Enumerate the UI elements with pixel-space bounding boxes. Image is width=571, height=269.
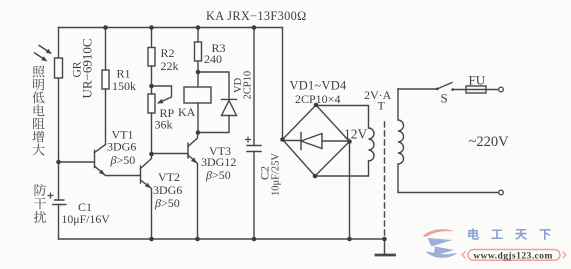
transformer core dashed line — [384, 122, 386, 238]
VT3 emitter arrow — [191, 157, 197, 163]
svg-text:2CP10×4: 2CP10×4 — [295, 92, 340, 106]
wire R2 to RP — [151, 66, 153, 94]
wire VD branch bottom — [198, 116, 229, 133]
svg-text:β>50: β>50 — [154, 196, 180, 210]
svg-text:~220V: ~220V — [469, 134, 510, 150]
wire bridge positive drop — [282, 28, 284, 140]
transformer T primary winding — [398, 89, 499, 193]
wire top positive rail — [59, 27, 283, 29]
wire bridge AC top to secondary — [316, 106, 369, 129]
RP wiper arrow — [157, 99, 164, 104]
wire VT1 base — [59, 161, 95, 163]
svg-text:VD1~VD4: VD1~VD4 — [290, 78, 347, 92]
svg-text:T: T — [378, 99, 386, 113]
svg-text:S: S — [441, 91, 448, 106]
wire left rail (GR / C1 branch) — [58, 28, 60, 240]
svg-text:β>50: β>50 — [205, 168, 231, 182]
note zhao-ming-di-dian-zu-zeng-da (light: resistance increases) — [33, 66, 45, 78]
wire VT3 emitter — [188, 155, 198, 239]
svg-text:10μF/25V: 10μF/25V — [271, 153, 282, 196]
wire VT1 emitter to VT2 base — [95, 166, 141, 176]
C2 plus sign — [245, 137, 251, 143]
capacitor C2 branch — [253, 28, 255, 240]
wire primary top to switch — [398, 88, 437, 90]
svg-text:UR−6910C: UR−6910C — [80, 38, 95, 98]
svg-text:KA JRX−13F300Ω: KA JRX−13F300Ω — [206, 9, 307, 23]
light arrow 1 — [39, 45, 50, 52]
transformer T secondary winding — [369, 128, 375, 161]
wire KA to VT3 collector node — [197, 103, 199, 133]
transistor VT2 — [140, 166, 142, 183]
svg-text:www.dgjs123.com: www.dgjs123.com — [473, 250, 553, 261]
switch S blade — [437, 83, 452, 90]
light arrow 2 — [34, 53, 45, 60]
svg-text:10μF/16V: 10μF/16V — [62, 212, 111, 226]
wire VT2 emitter — [141, 180, 152, 239]
C1 capacitor plates — [48, 137, 252, 205]
fuse FU — [466, 86, 486, 93]
wire secondary bottom to bridge AC bottom — [315, 161, 369, 176]
wire node to VT3 base — [152, 153, 189, 155]
transistor VT1 — [94, 151, 96, 168]
wire RP bottom to node — [151, 113, 153, 154]
wire bottom ground rail — [59, 238, 385, 240]
svg-text:22k: 22k — [161, 59, 179, 73]
resistor R3 — [197, 28, 199, 43]
svg-text:KA: KA — [178, 105, 196, 119]
svg-text:2CP10: 2CP10 — [243, 71, 254, 100]
transistor VT3 — [187, 143, 189, 158]
resistor R1 — [105, 28, 107, 71]
wire R3 to KA — [197, 61, 199, 87]
svg-text:β>50: β>50 — [110, 153, 136, 167]
wire RP wiper loop — [152, 86, 172, 103]
photoresistor GR body — [55, 58, 63, 78]
wire VT2 collector — [141, 154, 152, 169]
svg-text:3DG6: 3DG6 — [107, 139, 136, 153]
svg-text:12V: 12V — [344, 127, 368, 142]
svg-text:VT2: VT2 — [158, 170, 180, 184]
ground — [384, 239, 386, 254]
svg-text:150k: 150k — [112, 79, 136, 93]
watermark banner www.dgjs123.com — [462, 250, 566, 261]
svg-text:FU: FU — [469, 72, 486, 87]
terminal circles 220V — [499, 87, 504, 92]
diode VD — [222, 98, 237, 100]
svg-text:C2: C2 — [258, 166, 272, 180]
bridge rectifier VD1-VD4 — [283, 105, 350, 176]
watermark text dian-gong-tian-xia — [468, 228, 479, 240]
resistor R2 — [151, 28, 153, 48]
wire VD branch top — [198, 72, 229, 99]
svg-text:36k: 36k — [155, 117, 173, 131]
potentiometer RP — [148, 94, 155, 113]
VT1 emitter arrow — [99, 170, 105, 176]
note fang-gan-rao (anti-interference) — [35, 184, 47, 196]
wire switch to fuse to terminal — [453, 89, 499, 91]
relay coil KA — [184, 87, 211, 103]
watermark logo — [424, 230, 457, 258]
wire bridge negative drop — [349, 142, 351, 240]
wire VT3 collector — [188, 133, 198, 147]
VT2 emitter arrow — [145, 183, 151, 189]
wire R1 to VT1 collector — [95, 89, 106, 153]
svg-text:3DG6: 3DG6 — [153, 183, 182, 197]
svg-text:240: 240 — [204, 52, 222, 66]
